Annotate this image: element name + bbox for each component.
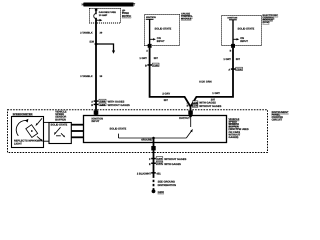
wire label right horizontal 1 GRY (199, 81, 220, 102)
svg-text:E: E (149, 163, 151, 166)
arrow other circuits (96, 19, 102, 22)
connector C200 pin A with gages (91, 99, 124, 104)
node I/P FUSE BLOCK label (122, 9, 131, 17)
ground G200 (152, 189, 165, 193)
svg-text:S39: S39 (89, 41, 94, 44)
connector square ground exit (151, 146, 155, 150)
svg-text:451: 451 (156, 173, 161, 176)
svg-text:GROUND: GROUND (141, 139, 152, 142)
node SOLID STATE cruise (155, 27, 172, 30)
node INSTRUMENT PANEL PRINTED CIRCUIT label (272, 111, 289, 122)
pin IGNITION cruise (146, 16, 156, 44)
wire buffer bus bars (71, 124, 84, 138)
svg-text:C200: C200 (157, 157, 163, 160)
svg-text:SPEEDOMETER: SPEEDOMETER (13, 113, 33, 116)
svg-text:B: B (145, 65, 147, 68)
svg-text:3 TAN/BLK: 3 TAN/BLK (80, 75, 93, 78)
connector C200 ground without gages (149, 157, 187, 161)
node SPEEDOMETER label (13, 113, 33, 116)
svg-text:WITHOUT GAGES: WITHOUT GAGES (164, 158, 186, 161)
svg-text:BUFFER: BUFFER (55, 118, 66, 121)
svg-text:INPUT: INPUT (92, 120, 100, 123)
svg-text:IGNITION: IGNITION (146, 16, 156, 19)
node REFLECTS MPH text (14, 140, 42, 146)
wire speedometer to buffer stubs (44, 122, 50, 141)
svg-text:INPUT: INPUT (157, 40, 165, 43)
speedometer needle sweep arc (16, 119, 28, 136)
svg-text:8 DK GRN: 8 DK GRN (199, 81, 212, 84)
svg-text:HOT IN RUN, BULB TEST OR START: HOT IN RUN, BULB TEST OR START (82, 3, 136, 7)
wire label ecm drop (223, 58, 240, 61)
svg-text:INPUT: INPUT (240, 40, 248, 43)
instrument cluster dashed box (8, 110, 268, 153)
svg-text:SOLID STATE: SOLID STATE (51, 124, 68, 127)
svg-text:GAGES): GAGES) (229, 136, 239, 139)
wire branch to other circuits (96, 44, 115, 54)
node V junction pins A B (187, 101, 189, 107)
wire junction to buffer output (188, 106, 193, 117)
svg-text:10 AMP: 10 AMP (99, 14, 108, 17)
svg-text:DISTRIBUTION: DISTRIBUTION (158, 184, 177, 187)
svg-text:GAUGES FUSE: GAUGES FUSE (99, 11, 116, 14)
connector C200 ground with gages (149, 161, 181, 165)
svg-text:1 GRY: 1 GRY (139, 57, 147, 60)
svg-text:C200: C200 (100, 103, 106, 106)
pin OUTPUT buffer (179, 117, 190, 120)
splice S39 (89, 41, 97, 46)
svg-text:LIGHT: LIGHT (14, 142, 22, 145)
svg-text:SOLID STATE: SOLID STATE (110, 128, 127, 131)
connector C100 cruise drop (145, 63, 159, 67)
wire label left horizontal 2 GRY (162, 93, 170, 102)
svg-text:C200: C200 (100, 100, 106, 103)
wire ground BLK/WHT (153, 138, 155, 190)
node buffer right stack label (229, 118, 249, 139)
pin A cruise output (146, 49, 148, 52)
svg-text:CIRCUIT: CIRCUIT (272, 119, 283, 122)
svg-text:WITH GAGES: WITH GAGES (164, 163, 181, 166)
wire label 2 TAN/BLK 39 upper (80, 32, 103, 35)
svg-text:C100: C100 (236, 68, 242, 71)
op ECM dashed box (222, 16, 262, 46)
wire cruise branch GRY 397 (150, 48, 233, 107)
connector square cruise bottom (148, 44, 152, 48)
transistor symbol buffer (54, 127, 65, 137)
svg-text:1 GRY: 1 GRY (223, 58, 231, 61)
node SOLID STATE ecm (238, 27, 255, 30)
connector C100 ecm drop (228, 67, 242, 71)
connector square ecm bottom (231, 44, 235, 48)
svg-text:2 GRY: 2 GRY (162, 93, 170, 96)
svg-text:WITHOUT GAGES: WITHOUT GAGES (199, 105, 221, 108)
svg-text:G200: G200 (158, 191, 165, 194)
speedometer input shaft arrows (36, 118, 44, 142)
pin IGNITION INPUT buffer (92, 117, 104, 123)
svg-text:A: A (228, 69, 230, 72)
svg-text:SOLID STATE: SOLID STATE (238, 27, 255, 30)
svg-text:SOLID STATE: SOLID STATE (155, 27, 172, 30)
node VEHICLE SPEED SENSOR BUFFER label (55, 111, 67, 122)
pin ON INPUT ecm (233, 37, 248, 43)
pin IGNITION ecm (228, 17, 238, 45)
node SEE GROUND DISTRIBUTION (158, 181, 177, 188)
node SOLID STATE buffer main (110, 128, 127, 131)
svg-text:397: 397 (236, 58, 241, 61)
speedometer box (12, 117, 44, 148)
svg-text:WITHOUT GAGES: WITHOUT GAGES (108, 104, 130, 107)
svg-text:397: 397 (164, 99, 169, 102)
connector square ignition input to cluster (94, 110, 99, 114)
svg-text:IGNITION: IGNITION (228, 17, 238, 20)
svg-text:(ECM): (ECM) (263, 21, 270, 24)
svg-text:B: B (187, 105, 189, 108)
wire label cruise drop (139, 57, 158, 60)
svg-text:C100: C100 (192, 105, 198, 108)
pin B ecm input (230, 49, 232, 52)
wire TAN/BLK from fuse to cluster (95, 18, 97, 116)
switch output transistor inside buffer (119, 116, 193, 139)
svg-text:OUTPUT: OUTPUT (179, 117, 190, 120)
svg-text:C200: C200 (157, 162, 163, 165)
buffer box (49, 123, 71, 144)
pin ON INPUT cruise (150, 37, 165, 43)
fuse block dashed box (90, 9, 121, 24)
svg-text:1 GRY: 1 GRY (212, 92, 220, 95)
connector C200 pin B without gages (91, 103, 130, 107)
speedometer magnet cup (26, 125, 38, 138)
pin GROUND buffer (141, 139, 152, 142)
connector C100 without gages at junction (192, 104, 221, 108)
fuse F1 GAUGES FUSE 10 AMP (94, 9, 116, 19)
node CRUISE CONTROL MODULE label (181, 12, 193, 20)
svg-text:2 BLK/WHT: 2 BLK/WHT (137, 173, 152, 176)
node ELECTRONIC CONTROL MODULE label (263, 14, 279, 24)
node HOT IN RUN header bar (82, 3, 136, 7)
wire label 3 TAN/BLK 39 lower (80, 75, 103, 78)
op buffer main box (84, 116, 227, 143)
svg-text:B: B (91, 104, 93, 107)
svg-text:BLOCK: BLOCK (122, 15, 131, 18)
svg-text:C100: C100 (192, 101, 198, 104)
svg-text:397: 397 (154, 57, 159, 60)
svg-text:2 TAN/BLK: 2 TAN/BLK (80, 32, 93, 35)
op cruise control module dashed box (145, 15, 180, 46)
wire label 2 BLK/WHT 451 (137, 172, 161, 176)
svg-text:MODULE: MODULE (181, 18, 192, 21)
svg-text:C100: C100 (153, 64, 159, 67)
connector C100 with gages at junction (192, 101, 216, 105)
